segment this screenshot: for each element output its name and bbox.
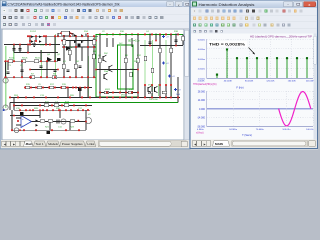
svg-text:T (Secs): T (Secs): [242, 133, 252, 137]
svg-text:◄: ◄: [193, 142, 196, 146]
svg-text:SET+=5.2v: SET+=5.2v: [128, 41, 140, 43]
svg-text:v(Vout): v(Vout): [196, 132, 204, 135]
svg-text:F (Hz): F (Hz): [236, 85, 243, 89]
svg-text:2.000m: 2.000m: [198, 69, 205, 71]
svg-text:◄: ◄: [3, 143, 6, 147]
svg-text:0R22: 0R22: [105, 89, 111, 91]
svg-text:2SA: 2SA: [104, 70, 109, 73]
svg-text:0R22: 0R22: [129, 89, 135, 91]
svg-text:Main: Main: [26, 142, 33, 146]
svg-text:120.00K: 120.00K: [266, 81, 275, 83]
svg-text:2SC: 2SC: [104, 53, 109, 55]
svg-text:40.004K: 40.004K: [224, 81, 233, 83]
svg-text:THD = 0,0028%: THD = 0,0028%: [209, 42, 246, 46]
svg-text:34.965u: 34.965u: [229, 129, 238, 131]
svg-text:4.960u: 4.960u: [197, 129, 204, 131]
svg-text:R3 2k: R3 2k: [22, 58, 28, 60]
svg-text:5.000m: 5.000m: [198, 39, 205, 41]
svg-text:Models: Models: [48, 142, 58, 146]
svg-text:4.004K: 4.004K: [198, 81, 205, 83]
svg-text:R5 1k: R5 1k: [35, 58, 41, 60]
svg-text:Links: Links: [87, 142, 95, 146]
svg-text:0.000: 0.000: [199, 108, 206, 111]
svg-text:R1 1k: R1 1k: [9, 58, 15, 60]
svg-text:THD(dashed)HD(L)(%): THD(dashed)HD(L)(%): [193, 84, 217, 86]
svg-text:►: ►: [203, 142, 206, 146]
svg-text:200.00K: 200.00K: [306, 81, 315, 83]
svg-text:-14.000: -14.000: [197, 117, 206, 120]
svg-text:4.000m: 4.000m: [198, 49, 205, 51]
svg-text:x: x: [308, 2, 310, 7]
svg-text:x: x: [178, 3, 180, 7]
svg-text:70.048u: 70.048u: [256, 129, 265, 131]
svg-text:►: ►: [12, 143, 15, 147]
svg-text:28.000: 28.000: [198, 90, 206, 93]
svg-text:Power Supplies: Power Supplies: [62, 142, 83, 146]
svg-text:160.00K: 160.00K: [288, 81, 297, 83]
svg-text:MAIN: MAIN: [215, 142, 224, 146]
svg-text:C:\VC2\DATA\Petrov\VA3-Vasilie: C:\VC2\DATA\Petrov\VA3-Vasiliev&OPS-daem…: [8, 3, 120, 7]
svg-text:140.01u: 140.01u: [306, 129, 315, 131]
svg-text:D1 D2: D1 D2: [30, 31, 37, 33]
svg-text:-: -: [22, 123, 23, 127]
svg-text:Harmonic Distortion Analysis: Harmonic Distortion Analysis: [199, 3, 255, 7]
svg-text:80.004K: 80.004K: [245, 81, 254, 83]
svg-text:14.000: 14.000: [198, 99, 206, 102]
svg-text:2SC5200: 2SC5200: [149, 99, 159, 101]
svg-text:3.000m: 3.000m: [198, 59, 205, 61]
svg-text:+: +: [22, 117, 24, 121]
svg-text:HD (dashed) OPS-daemon__20kHz-: HD (dashed) OPS-daemon__20kHz-speed-TIP: [250, 36, 313, 38]
svg-text:Text 1: Text 1: [36, 142, 44, 146]
svg-text:105.03u: 105.03u: [282, 129, 291, 131]
